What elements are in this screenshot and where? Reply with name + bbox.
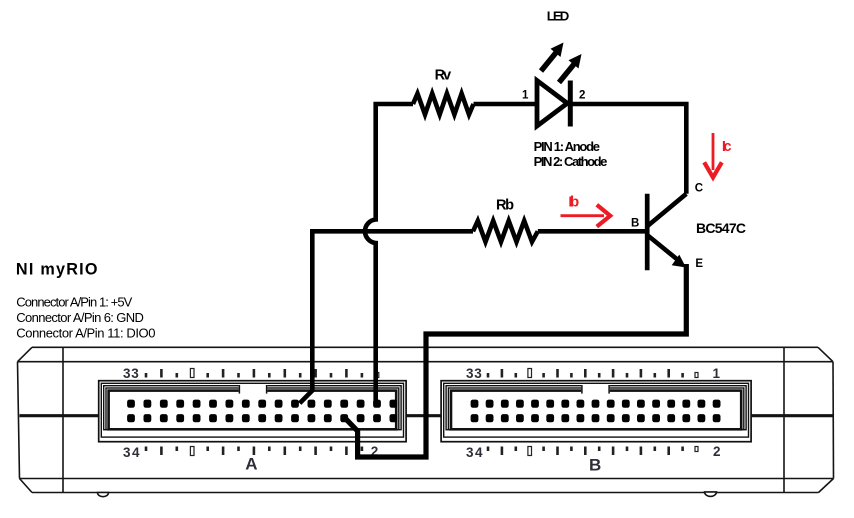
wire Rb to base xyxy=(538,229,645,234)
svg-text:Ib: Ib xyxy=(568,194,579,211)
connector B key notch xyxy=(581,385,610,394)
connector B bottom hollow ticks xyxy=(528,447,532,456)
svg-text:33: 33 xyxy=(466,366,482,381)
svg-text:2: 2 xyxy=(713,444,721,459)
connector A top hollow ticks xyxy=(190,369,194,378)
connector B pins top row xyxy=(471,400,721,408)
enclosure seam line right segment xyxy=(751,414,833,417)
LED D1 xyxy=(537,81,570,127)
enclosure seam line left segment xyxy=(20,414,99,417)
svg-text:E: E xyxy=(695,258,703,270)
svg-text:NI myRIO: NI myRIO xyxy=(16,261,98,279)
connector A top tick row xyxy=(146,369,362,378)
connector B housing xyxy=(441,381,751,442)
connector A key notch xyxy=(239,385,268,394)
svg-text:Ic: Ic xyxy=(722,139,732,155)
connector B top hollow ticks xyxy=(528,369,532,378)
svg-text:33: 33 xyxy=(123,366,139,381)
svg-text:1: 1 xyxy=(713,366,721,381)
screw bump left xyxy=(98,493,109,497)
svg-text:C: C xyxy=(695,183,703,195)
red current arrow Ic xyxy=(704,133,722,177)
transistor Q1 BC547C xyxy=(647,194,686,270)
wire emitter to GND pin xyxy=(345,264,686,457)
svg-text:Rb: Rb xyxy=(496,198,514,214)
svg-text:Connector A/Pin 11: DIO0: Connector A/Pin 11: DIO0 xyxy=(16,325,155,340)
LED light arrow 1 xyxy=(541,43,564,72)
connector B pins bottom row xyxy=(471,414,721,422)
connector A pins top row xyxy=(127,400,397,408)
svg-text:2: 2 xyxy=(579,90,585,102)
wire DIO0 pin to Rb xyxy=(300,231,473,403)
connector B top tick row xyxy=(488,369,683,378)
red current arrow Ib xyxy=(561,205,611,227)
myRIO enclosure outline xyxy=(18,347,834,492)
resistor Rb xyxy=(473,221,538,242)
wire LED cathode to collector xyxy=(570,104,686,194)
connector A bottom tick row xyxy=(146,447,362,456)
svg-text:PIN 2: Cathode: PIN 2: Cathode xyxy=(534,154,608,169)
svg-text:Connector A/Pin 1: +5V: Connector A/Pin 1: +5V xyxy=(16,295,132,310)
screw bump right xyxy=(705,492,717,497)
svg-text:LED: LED xyxy=(547,8,570,23)
connector A bottom hollow tick xyxy=(190,447,194,456)
wire Rv to LED anode xyxy=(474,102,538,107)
svg-text:Rv: Rv xyxy=(435,68,452,84)
resistor Rv xyxy=(413,94,474,115)
connector A pins bottom row xyxy=(127,414,397,422)
svg-text:34: 34 xyxy=(466,445,483,460)
wire from +5V pin up to Rv with hop over base wire xyxy=(365,104,413,404)
svg-text:B: B xyxy=(589,456,601,475)
svg-text:BC547C: BC547C xyxy=(696,220,746,236)
LED light arrow 2 xyxy=(559,54,582,83)
connector B bottom tick row xyxy=(488,447,683,456)
enclosure seam line middle segment xyxy=(406,414,441,417)
connector A housing xyxy=(99,381,406,442)
svg-text:PIN 1: Anode: PIN 1: Anode xyxy=(534,139,600,154)
svg-text:Connector A/Pin 6: GND: Connector A/Pin 6: GND xyxy=(16,310,144,325)
svg-text:1: 1 xyxy=(522,90,529,102)
svg-text:B: B xyxy=(631,218,639,230)
svg-text:A: A xyxy=(245,455,257,474)
svg-text:34: 34 xyxy=(123,445,140,460)
